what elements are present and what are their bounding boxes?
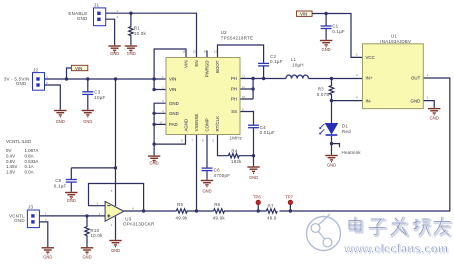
svg-text:13: 13 <box>214 50 218 54</box>
svg-text:0.075: 0.075 <box>317 92 330 97</box>
wire BOOT to C2 <box>218 45 264 63</box>
svg-text:16: 16 <box>183 50 187 54</box>
watermark text chinese <box>349 217 450 235</box>
svg-text:VIN: VIN <box>300 12 307 17</box>
node VSENSE tap <box>195 209 198 212</box>
node R4/C4/gnd <box>252 154 255 157</box>
node AGND join <box>152 142 155 145</box>
node R10 tap <box>85 214 88 217</box>
node opamp out <box>142 209 145 212</box>
svg-text:GND: GND <box>411 98 421 103</box>
ground R1 <box>125 46 137 56</box>
svg-text:10µF: 10µF <box>94 95 105 100</box>
node PH2 <box>251 87 254 90</box>
svg-text:AGND: AGND <box>184 119 189 132</box>
ground J1 <box>108 46 120 56</box>
net label VIN <box>67 65 88 79</box>
svg-text:TP6: TP6 <box>253 195 261 200</box>
wire RT/CLK to R4 <box>218 135 229 156</box>
wire opamp V- to gnd <box>115 216 117 239</box>
testpoint TP7 <box>285 195 293 212</box>
svg-text:PAD: PAD <box>169 122 178 127</box>
IC U2 TPS54218RTE <box>160 30 254 142</box>
resistor R6 49.9k <box>213 202 226 221</box>
svg-text:GND: GND <box>322 47 331 52</box>
svg-text:14: 14 <box>204 50 208 54</box>
ground C6 <box>201 181 213 194</box>
svg-text:C4: C4 <box>260 125 266 130</box>
svg-text:GND: GND <box>67 198 76 203</box>
wire heatsink stub <box>332 144 340 148</box>
ground R10 <box>81 248 93 260</box>
wire SS to C4 <box>240 112 254 125</box>
wire to gnd <box>253 156 255 167</box>
node VIN label tap <box>65 77 68 80</box>
connector J3 <box>9 205 47 228</box>
svg-text:GND: GND <box>14 218 25 223</box>
svg-text:GND: GND <box>56 119 65 124</box>
capacitor C6 4700pF <box>202 168 231 180</box>
resistor R10 10.0k <box>85 216 103 247</box>
wire J1.1 to EN net <box>106 13 197 57</box>
wire PH bus <box>240 79 286 100</box>
LED D1 Red <box>319 101 351 155</box>
svg-text:U1: U1 <box>391 34 397 39</box>
svg-text:10µH: 10µH <box>292 63 304 68</box>
resistor R4 182k <box>228 148 253 164</box>
svg-text:4700pF: 4700pF <box>214 173 231 178</box>
svg-text:R10: R10 <box>90 228 99 233</box>
wire U1 OUT loop <box>290 78 449 211</box>
capacitor C4 0.01uF <box>248 125 275 156</box>
op-amp U3 OPA313DCKR <box>97 189 156 227</box>
svg-text:0.1µF: 0.1µF <box>332 29 345 34</box>
svg-text:GND: GND <box>16 81 27 86</box>
svg-text:VIN: VIN <box>169 77 176 82</box>
svg-text:PH: PH <box>231 87 237 92</box>
svg-text:17: 17 <box>160 120 164 124</box>
svg-text:VIN: VIN <box>169 87 176 92</box>
wire J1.2 to gnd <box>106 19 115 45</box>
svg-text:D1: D1 <box>342 123 348 128</box>
svg-text:COMP: COMP <box>205 118 210 131</box>
table VCNTL/ILED <box>6 139 38 175</box>
ground C1 <box>320 41 332 53</box>
svg-text:1.067A: 1.067A <box>25 148 39 153</box>
node C1 tap <box>324 12 327 15</box>
svg-text:PH: PH <box>231 76 237 81</box>
svg-text:0.4V: 0.4V <box>6 154 15 159</box>
wire VIN to U1 VCC <box>312 14 362 58</box>
svg-text:0.533A: 0.533A <box>25 159 39 164</box>
svg-text:PH: PH <box>231 97 237 102</box>
svg-text:15: 15 <box>193 50 197 54</box>
svg-text:EN: EN <box>194 61 199 67</box>
svg-text:C1: C1 <box>332 24 338 29</box>
node TP6 <box>257 209 260 212</box>
svg-text:IN-: IN- <box>366 98 372 103</box>
svg-text:INA193AIDBV: INA193AIDBV <box>380 39 411 44</box>
node C3 tap <box>86 77 89 80</box>
svg-text:TPS54218RTE: TPS54218RTE <box>221 35 254 40</box>
svg-text:0.1µF: 0.1µF <box>54 183 67 188</box>
node PAD <box>152 123 155 126</box>
svg-text:0.1µF: 0.1µF <box>270 59 283 64</box>
svg-text:C8: C8 <box>55 178 61 183</box>
svg-text:0.01µF: 0.01µF <box>260 130 275 135</box>
capacitor C1 0.1uF <box>321 14 345 40</box>
svg-text:VCC: VCC <box>366 55 375 60</box>
node U2 VIN bus <box>152 77 155 80</box>
wire U2 GND bus <box>154 103 185 155</box>
svg-text:1MHz: 1MHz <box>230 135 243 140</box>
watermark text chinese shadow <box>350 218 451 236</box>
wire VIN rail <box>45 78 167 80</box>
ground C8 <box>65 193 77 203</box>
svg-text:R3: R3 <box>318 87 324 92</box>
wire U2 VIN2 stub <box>154 89 166 91</box>
IC U1 INA193AIDBV <box>356 34 429 109</box>
svg-text:10.0k: 10.0k <box>134 31 147 36</box>
node TP7 <box>289 209 292 212</box>
wire VIN to opamp V+ <box>115 79 117 206</box>
svg-text:VSENSE: VSENSE <box>194 114 199 132</box>
svg-text:49.9: 49.9 <box>267 216 277 221</box>
svg-text:OPA313DCKR: OPA313DCKR <box>123 221 155 226</box>
svg-text:SS: SS <box>231 109 237 114</box>
watermark logo <box>307 214 341 251</box>
svg-text:0V: 0V <box>6 148 11 153</box>
svg-text:49.9k: 49.9k <box>176 216 189 221</box>
svg-text:C2: C2 <box>270 54 276 59</box>
resistor R7 49.9 <box>266 203 277 220</box>
wire C8 branch <box>71 167 115 169</box>
wire U1 GND to gnd <box>423 101 434 108</box>
svg-text:12: 12 <box>242 75 246 79</box>
svg-text:VIN: VIN <box>75 66 82 71</box>
svg-text:TP7: TP7 <box>285 195 293 200</box>
svg-text:Red: Red <box>342 129 351 134</box>
node VIN2 tap <box>152 88 155 91</box>
svg-text:R1: R1 <box>134 26 140 31</box>
node D1 anode <box>330 99 333 102</box>
wire R3 to U1 IN- <box>332 100 363 102</box>
wire J2.2 to gnd <box>45 85 61 110</box>
wire opamp feedback loop <box>89 184 144 212</box>
svg-text:GND: GND <box>169 111 179 116</box>
svg-text:VIN: VIN <box>184 61 189 68</box>
connector J1 <box>68 3 118 26</box>
capacitor C3 10uF <box>82 79 105 110</box>
ground U2 <box>148 156 160 166</box>
node C8 tap <box>114 166 117 169</box>
node R3 top <box>330 77 333 80</box>
svg-text:0.1A: 0.1A <box>25 164 34 169</box>
ground J3 <box>42 248 54 260</box>
svg-text:GND: GND <box>327 162 336 167</box>
svg-text:0.0A: 0.0A <box>25 169 34 174</box>
testpoint TP6 <box>253 195 261 212</box>
wire U2 top VIN pin to rail <box>154 49 186 90</box>
svg-text:IN+: IN+ <box>366 76 373 81</box>
svg-text:C6: C6 <box>214 168 220 173</box>
svg-text:GND: GND <box>127 51 136 56</box>
capacitor C8 0.1uF <box>54 168 77 192</box>
connector J2 <box>4 67 48 90</box>
wire opamp output stub <box>124 210 144 212</box>
svg-text:GND: GND <box>249 175 258 180</box>
node opamp supply tap <box>114 77 117 80</box>
svg-text:GND: GND <box>111 248 120 253</box>
svg-text:49.9k: 49.9k <box>213 216 226 221</box>
svg-text:GND: GND <box>430 115 439 120</box>
svg-text:R7: R7 <box>268 203 274 208</box>
resistor R1 10.0k <box>129 13 147 45</box>
svg-text:1.45V: 1.45V <box>6 164 18 169</box>
svg-text:GND: GND <box>110 51 119 56</box>
ground J2 <box>54 111 66 124</box>
svg-text:C3: C3 <box>94 89 100 94</box>
svg-text:GND: GND <box>169 101 179 106</box>
ground opamp <box>109 241 121 254</box>
svg-text:10: 10 <box>242 95 246 99</box>
svg-text:L1: L1 <box>291 57 297 62</box>
wire bottom OUT net <box>144 210 291 212</box>
svg-text:www.elecfans.com: www.elecfans.com <box>343 244 448 256</box>
inductor L1 10uH <box>286 57 308 79</box>
svg-text:J1: J1 <box>94 3 99 8</box>
resistor R5 49.9k <box>176 202 189 221</box>
svg-text:GND: GND <box>43 255 52 260</box>
wire L1 to U1 IN+ <box>308 78 362 80</box>
ground U1 <box>428 109 440 121</box>
svg-text:Heatsink: Heatsink <box>342 150 362 155</box>
resistor R3 0.075 <box>317 79 334 101</box>
svg-text:OUT: OUT <box>411 76 421 81</box>
svg-text:J2: J2 <box>33 67 38 72</box>
svg-text:10.0k: 10.0k <box>90 233 103 238</box>
wire COMP to C6 <box>206 135 208 168</box>
svg-text:BOOT: BOOT <box>215 60 220 73</box>
svg-text:GND: GND <box>83 119 92 124</box>
svg-text:PWRGD: PWRGD <box>205 61 210 78</box>
ground C3 <box>82 111 94 124</box>
svg-text:R5: R5 <box>177 202 183 207</box>
ground R4 <box>247 167 259 180</box>
node C2 on PH <box>262 77 265 80</box>
wire PWRGD stub <box>206 51 208 58</box>
svg-text:R6: R6 <box>214 202 220 207</box>
svg-text:J3: J3 <box>28 205 33 210</box>
node PH1 <box>251 77 254 80</box>
svg-text:0.8V: 0.8V <box>6 159 15 164</box>
svg-text:GND: GND <box>202 188 211 193</box>
wire J3.1 to opamp + <box>39 215 105 217</box>
svg-text:182k: 182k <box>231 159 242 164</box>
svg-text:RT/CLK: RT/CLK <box>215 116 220 132</box>
svg-text:R4: R4 <box>231 148 237 153</box>
svg-text:GND: GND <box>150 161 159 166</box>
svg-text:VCNTL ILED: VCNTL ILED <box>6 139 31 144</box>
node J1-R1 junction <box>129 12 132 15</box>
node GND2 <box>152 112 155 115</box>
svg-text:GND: GND <box>82 255 91 260</box>
node heatsink tap <box>330 142 333 145</box>
ground D1 <box>325 156 337 168</box>
net label Heatsink <box>342 150 362 155</box>
svg-text:GND: GND <box>77 16 88 21</box>
capacitor C2 0.1uF <box>258 54 283 79</box>
wire J3.2 to gnd <box>39 222 47 247</box>
svg-text:11: 11 <box>242 85 245 89</box>
svg-text:0.8A: 0.8A <box>25 154 34 159</box>
svg-text:1.8V: 1.8V <box>6 169 15 174</box>
wire VSENSE down <box>196 135 198 212</box>
net label VIN top <box>297 11 313 17</box>
